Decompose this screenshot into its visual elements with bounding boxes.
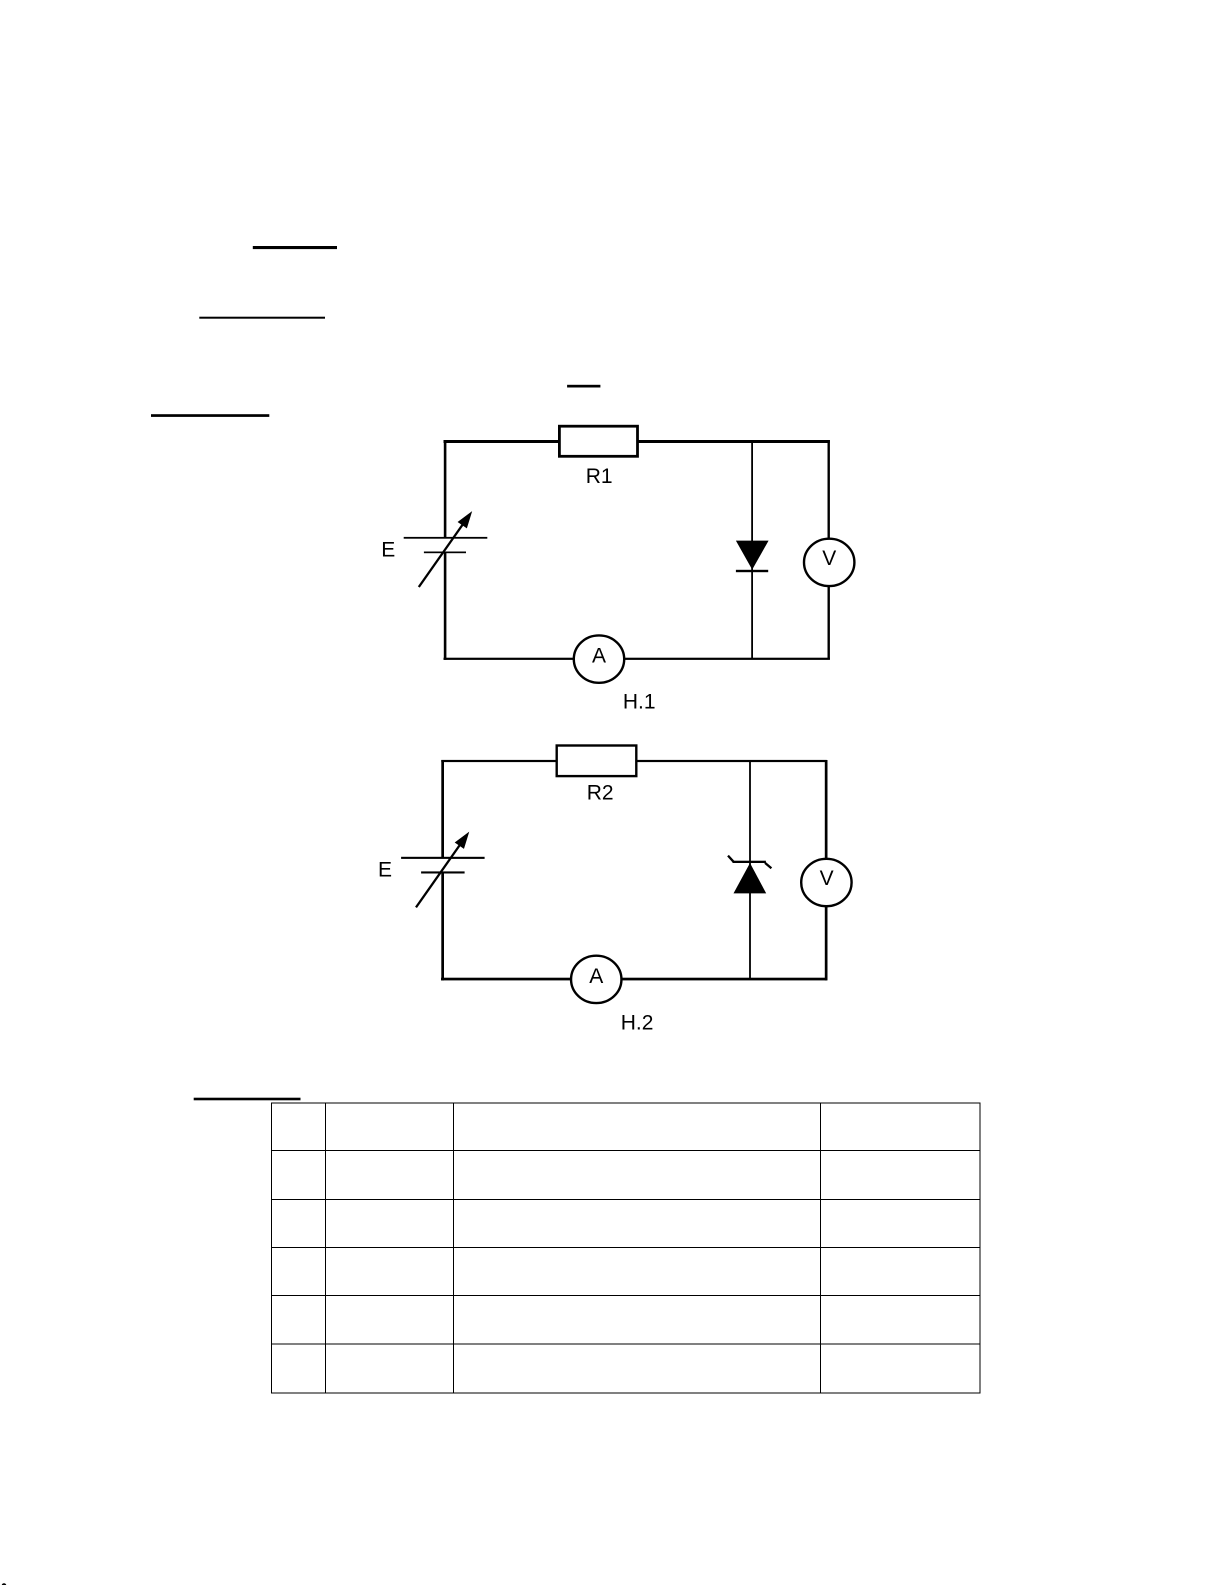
voltmeter V2	[801, 859, 851, 906]
wire H2 top	[441, 760, 826, 762]
wire H2 left lower	[441, 873, 444, 981]
blank underline 2	[199, 317, 325, 319]
wire H2 left upper	[441, 760, 444, 858]
wire H1 left upper	[444, 440, 447, 538]
diode D1	[736, 541, 769, 573]
battery E1 long plate	[404, 537, 488, 539]
label H.1	[623, 690, 656, 713]
wire H1 diode branch	[751, 442, 753, 658]
svg-text:E: E	[381, 538, 395, 561]
battery E1 short plate	[424, 552, 466, 554]
wire H1 left lower	[444, 553, 447, 660]
wire H2 zener branch	[749, 762, 751, 979]
wire H2 right	[825, 760, 828, 980]
table grid	[272, 1103, 981, 1393]
svg-text:A: A	[592, 645, 606, 668]
wire H1 right	[828, 440, 830, 660]
blank underline 1	[253, 246, 337, 249]
svg-text:A: A	[589, 965, 603, 988]
zener diode DZ	[728, 856, 771, 894]
voltmeter V1	[804, 539, 854, 586]
resistor R1	[559, 426, 637, 456]
blank underline 5	[194, 1098, 301, 1101]
battery E1 variable arrow	[419, 514, 471, 587]
resistor R2	[557, 746, 637, 777]
blank underline 3	[567, 385, 600, 388]
period bottom-left	[2, 1583, 7, 1585]
svg-text:R1: R1	[586, 465, 613, 488]
ammeter A2	[571, 956, 621, 1003]
svg-text:V: V	[822, 547, 836, 570]
battery E2 variable arrow	[416, 834, 467, 907]
ammeter A1	[574, 635, 624, 682]
wire H1 bottom	[444, 658, 830, 660]
battery E2 long plate	[401, 857, 485, 859]
svg-text:H.2: H.2	[621, 1012, 654, 1035]
label R1	[586, 465, 613, 488]
label H.2	[621, 1012, 654, 1035]
label E circuit 2	[378, 859, 392, 882]
wire H1 top	[444, 440, 830, 443]
label E circuit 1	[381, 538, 395, 561]
svg-text:H.1: H.1	[623, 690, 656, 713]
blank underline 4	[151, 414, 269, 417]
svg-text:E: E	[378, 859, 392, 882]
label R2	[587, 781, 614, 804]
battery E2 short plate	[421, 871, 465, 873]
svg-text:R2: R2	[587, 781, 614, 804]
svg-text:V: V	[820, 867, 834, 890]
wire H2 bottom	[441, 978, 827, 981]
